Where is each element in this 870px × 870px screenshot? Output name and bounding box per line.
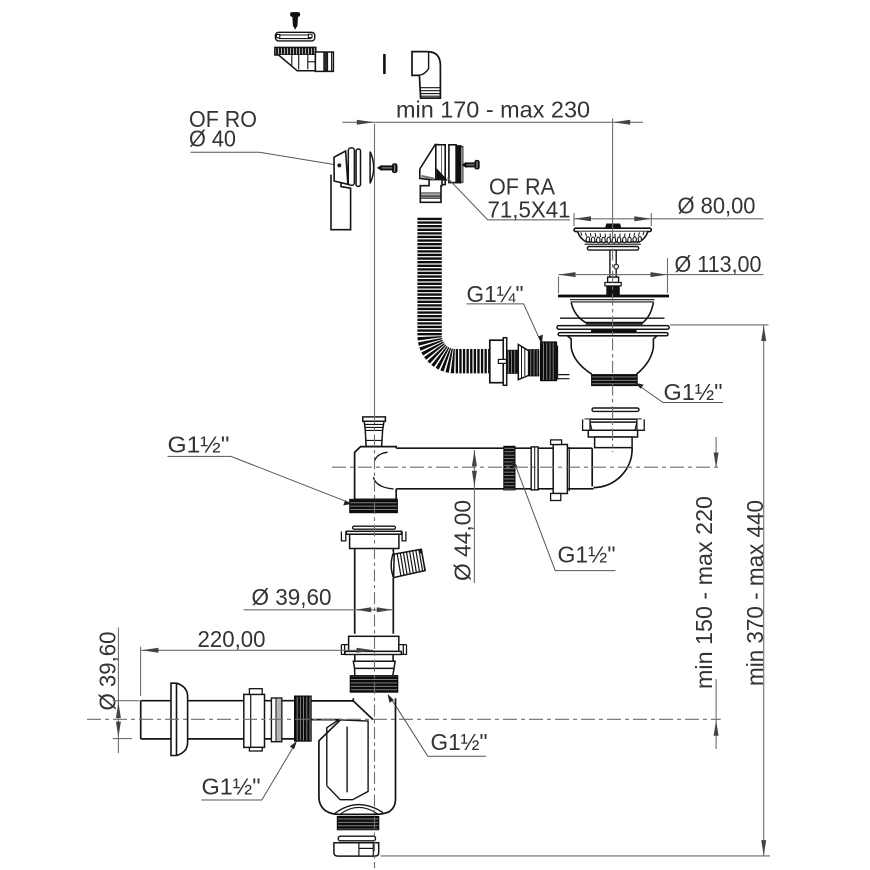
vertical pipe (tube): [355, 549, 394, 634]
svg-text:Ø 113,00: Ø 113,00: [675, 251, 762, 277]
wall pipe nut: [244, 689, 265, 751]
drain elbow body: [592, 448, 632, 488]
svg-text:G1½": G1½": [558, 542, 616, 568]
compression olive ring: [353, 661, 395, 676]
leader for pipe thread G1 1/2": [516, 467, 616, 571]
overflow cover disc (edge view): [370, 152, 374, 184]
drain elbow flange: [583, 419, 645, 447]
svg-text:G1½": G1½": [664, 379, 723, 405]
wall pipe (bottom left tube): [141, 701, 295, 739]
svg-text:71,5X41: 71,5X41: [488, 197, 571, 223]
vertical pipe washer: [353, 526, 396, 529]
svg-text:min 150 - max 220: min 150 - max 220: [691, 496, 717, 689]
trap outlet thread (black): [337, 817, 379, 830]
hose end backnut: [490, 338, 507, 386]
dishwasher barb nozzle: [391, 549, 425, 578]
compression ring: [531, 447, 538, 490]
waste outlet washer: [592, 408, 639, 411]
overflow housing (knurled cap + body + outlet pipe): [275, 47, 334, 71]
screw (for OF RA): [463, 160, 480, 169]
trap outlet connector: [334, 843, 379, 856]
tick mark (separator): [383, 54, 386, 74]
hose tailpiece thread (left): [507, 350, 518, 373]
svg-text:G1½": G1½": [431, 729, 488, 755]
wall escutcheon flange: [171, 683, 188, 755]
sink waste flange rim: [558, 295, 669, 298]
tee bottom thread G1 1/2 (black): [350, 499, 398, 512]
leader for waste outlet G1 1/2": [638, 385, 723, 403]
vertical pipe neck: [355, 655, 393, 662]
bottle trap body: [311, 698, 396, 814]
svg-text:Ø 44,00: Ø 44,00: [450, 500, 476, 581]
wall pipe olive ring: [271, 698, 281, 742]
hose tailpiece cone: [518, 345, 528, 380]
overflow faceplate (slotted bar): [275, 32, 314, 41]
wire center line horizontal y=467.2 (upper pipe axis): [332, 466, 720, 468]
leader for G1 1/4": [467, 304, 542, 343]
trap outlet washer: [338, 836, 375, 841]
drain side port thread G1 1/4: [541, 342, 557, 381]
overflow elbow OF RO (round): [331, 148, 361, 230]
sink surface line: [560, 317, 665, 319]
screw (for OF RO): [378, 164, 397, 173]
overflow elbow OF RA (rectangular 71,5x41): [420, 144, 463, 202]
wire center line horizontal y=719.3 (lower pipe axis): [87, 718, 721, 720]
wire center line vertical x=612.6 (strainer axis): [612, 119, 614, 227]
strainer plug nut: [605, 283, 621, 286]
strainer stem: [608, 250, 619, 282]
svg-text:Ø 80,00: Ø 80,00: [678, 193, 756, 219]
tee top hose barb: [363, 417, 386, 447]
svg-text:G1¼": G1¼": [467, 281, 524, 307]
wire center line vertical x=374.5 (tee axis / top dim extension): [374, 124, 376, 412]
compression nut: [551, 440, 570, 501]
leader for OF RA: [447, 178, 570, 220]
tee fitting body: [355, 447, 397, 500]
svg-text:Ø 39,60: Ø 39,60: [252, 584, 332, 610]
screw (top, for overflow cover): [291, 13, 300, 29]
pipe thread ring G1 1/2 (black): [504, 446, 515, 490]
rubber gasket (black): [591, 329, 637, 332]
corrugated flexible hose: [430, 218, 490, 361]
upper horizontal pipe: [396, 448, 593, 489]
svg-text:G1½": G1½": [202, 774, 261, 800]
leader for tee thread G1 1/2": [168, 456, 346, 501]
trap side port thread (black): [295, 696, 312, 741]
svg-text:Ø 39,60: Ø 39,60: [95, 632, 121, 711]
vertical pipe thread G1 1/2 (black): [350, 676, 397, 692]
svg-text:Ø 40: Ø 40: [189, 126, 236, 152]
sink waste lower body: [557, 336, 658, 380]
leader for OF RO: [191, 152, 339, 165]
svg-text:220,00: 220,00: [198, 626, 266, 652]
svg-text:G1½": G1½": [168, 432, 230, 458]
sink waste upper bowl: [571, 303, 653, 323]
strainer basket: [574, 224, 651, 250]
leader for trap side inlet G1 1/2": [202, 744, 296, 800]
sink waste washer plate (Ø113): [557, 326, 669, 330]
strainer basket slots: [581, 232, 644, 238]
sink waste lower plate: [558, 333, 668, 336]
vertical pipe lower flange: [341, 636, 406, 654]
vertical pipe upper flange: [341, 531, 406, 548]
sink waste outlet thread G1 1/2: [592, 375, 638, 386]
svg-text:min 170 - max 230: min 170 - max 230: [396, 97, 590, 123]
hose tailpiece thread (right): [529, 350, 539, 376]
pipe elbow (top middle): [412, 52, 440, 99]
leader for trap inlet G1 1/2": [391, 698, 486, 757]
